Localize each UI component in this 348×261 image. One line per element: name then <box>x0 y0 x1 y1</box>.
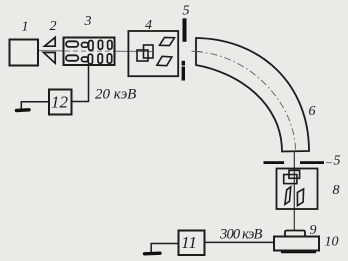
electrode bar top a <box>89 41 93 51</box>
wire: beam axis from lens 3 to deflector 4 <box>115 50 153 52</box>
label 2 <box>50 19 57 34</box>
svg-text:2: 2 <box>50 19 57 34</box>
wire: beam axis dashed inside lens 3 <box>65 50 114 52</box>
deflector plate top parallelogram <box>160 37 175 45</box>
label 12 <box>51 93 69 112</box>
electrode pill bottom-left <box>66 55 78 61</box>
electrode small pill bottom <box>81 57 88 62</box>
box 3 (lens system) <box>64 38 115 66</box>
wire: supply 11 to stage 10 <box>205 241 275 243</box>
pedestal 9 (sample holder) <box>285 231 305 237</box>
tick at sector entrance <box>192 50 201 52</box>
electrode bar bottom b <box>98 54 102 63</box>
electrode bar top b <box>98 40 102 49</box>
slit 5 (exit) left jaw <box>264 161 285 164</box>
ground (left of 11) <box>145 251 161 255</box>
svg-text:1: 1 <box>22 20 29 35</box>
svg-text:20 кэВ: 20 кэВ <box>95 87 136 103</box>
svg-text:11: 11 <box>181 233 197 252</box>
box 12 (supply) <box>49 90 72 115</box>
magnet sector 6 (quarter annulus) <box>196 38 309 152</box>
box 10 (target stage) <box>274 237 319 251</box>
deflector plate bottom parallelogram <box>157 56 172 65</box>
svg-text:5: 5 <box>183 4 190 19</box>
wire: supply 12 to ground <box>21 102 49 110</box>
base line under 10 <box>281 251 316 253</box>
component 2: lower prism plate <box>44 53 56 64</box>
svg-text:5: 5 <box>334 154 341 169</box>
label 8 <box>333 183 340 198</box>
label 6 <box>309 104 316 119</box>
label 1 <box>22 20 29 35</box>
svg-text:12: 12 <box>51 93 69 112</box>
label 20 keV <box>95 87 136 103</box>
slit 5 (exit) right jaw <box>300 161 324 164</box>
ground (left of 12) <box>17 108 30 112</box>
electrode bar bottom c <box>107 54 111 63</box>
label 9 <box>310 223 317 238</box>
wire: lens 3 down to supply 12 <box>72 65 89 102</box>
wire: supply 11 to ground <box>151 244 178 253</box>
label 10 <box>325 235 339 250</box>
label 4 <box>145 18 152 33</box>
chamber rect upper <box>289 170 300 178</box>
chamber rect lower-left <box>284 175 297 184</box>
box 11 (supply) <box>179 231 205 256</box>
svg-text:3: 3 <box>84 14 92 29</box>
svg-text:8: 8 <box>333 183 340 198</box>
box 8 (analyzer chamber) <box>277 169 318 210</box>
box 1 (ion source) <box>10 40 39 66</box>
chamber plate left parallelogram <box>285 187 291 205</box>
chamber plate right parallelogram <box>297 189 303 206</box>
slit 5 (entrance) lower jaw <box>182 61 185 81</box>
svg-text:4: 4 <box>145 18 152 33</box>
svg-text:6: 6 <box>309 104 316 119</box>
leader dash to label 5 <box>326 162 332 164</box>
label 11 <box>181 233 197 252</box>
label 3 <box>84 14 92 29</box>
svg-text:10: 10 <box>325 235 339 250</box>
component 2: upper prism plate <box>45 37 56 46</box>
beam centerline arc (dash-dot) <box>196 52 296 152</box>
deflector square lower-left <box>137 50 148 61</box>
electrode pill top-left <box>66 41 78 47</box>
electrode small pill top <box>81 43 88 48</box>
wire: vertical beam from sector exit to target <box>293 152 295 231</box>
label 5 (top) <box>183 4 190 19</box>
slit 5 (entrance) upper jaw <box>183 18 187 42</box>
svg-text:300 кэВ: 300 кэВ <box>219 227 263 243</box>
electrode bar bottom a <box>88 54 92 64</box>
electrode bar top c <box>108 41 112 50</box>
wire: beam axis from source 1 to lens 3 <box>38 50 64 52</box>
label 300 keV <box>219 227 263 243</box>
box 4 (deflector) <box>128 31 178 76</box>
label 5 (bottom) <box>334 154 341 169</box>
deflector square upper-right <box>144 45 154 58</box>
